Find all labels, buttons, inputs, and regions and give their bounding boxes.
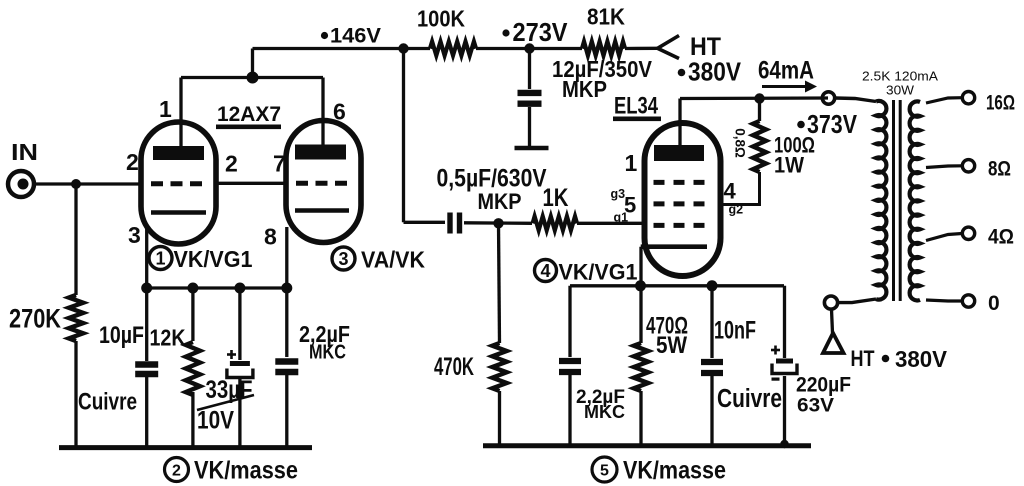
svg-text:2: 2	[225, 151, 238, 177]
grid g2 V2	[654, 201, 706, 206]
svg-text:1: 1	[155, 248, 165, 268]
svg-text:Cuivre: Cuivre	[717, 385, 782, 413]
wire 10uF top	[145, 288, 148, 361]
svg-text:VK/VG1: VK/VG1	[174, 246, 253, 272]
wire cathode rail right	[570, 284, 784, 287]
plus sign 33uF	[227, 353, 236, 356]
wire 1K to EL34 grid	[577, 222, 646, 225]
label circled 1 VK/VG1	[149, 247, 172, 270]
arrow 64mA	[762, 85, 809, 88]
svg-text:64mA: 64mA	[758, 57, 814, 85]
svg-text:3: 3	[338, 249, 348, 269]
node anode junction	[754, 93, 764, 103]
node 146V	[321, 32, 328, 39]
svg-text:4Ω: 4Ω	[988, 226, 1014, 249]
svg-text:3: 3	[128, 222, 141, 248]
HT feed arrow	[658, 36, 680, 59]
wire grid link V1a-V1b	[216, 182, 286, 185]
wire 2,2uF left bottom	[285, 375, 288, 448]
node HT 380V dot	[678, 69, 686, 77]
svg-text:HT: HT	[851, 346, 875, 371]
cathode V1a	[151, 210, 206, 215]
svg-text:220µF: 220µF	[796, 374, 851, 397]
label circled 2 VK/masse	[165, 458, 189, 482]
anode V1b	[295, 145, 346, 160]
capacitor 2,2uF MKC right	[559, 358, 581, 364]
cathode V2	[641, 244, 707, 249]
wire 146V rail	[253, 47, 431, 50]
svg-text:g1: g1	[614, 211, 629, 225]
wire tap 8R	[926, 166, 962, 168]
terminal 16R	[962, 92, 974, 104]
cathode V1b	[295, 208, 349, 213]
node rail dot 4	[281, 283, 292, 294]
svg-text:0: 0	[988, 292, 1000, 315]
wire 2,2uF right top	[568, 286, 571, 357]
svg-text:33µF: 33µF	[206, 376, 253, 404]
wire primary bottom	[838, 299, 876, 303]
terminal 4R	[962, 227, 974, 239]
wire anode link rail	[181, 76, 323, 79]
terminal 8R	[962, 160, 974, 172]
svg-text:8Ω: 8Ω	[988, 158, 1011, 181]
svg-text:146V: 146V	[330, 25, 381, 48]
wire input node down	[74, 184, 77, 295]
terminal bar 12uF	[515, 146, 549, 151]
grid V1b	[296, 181, 351, 186]
svg-text:1: 1	[625, 150, 638, 176]
svg-text:5W: 5W	[656, 332, 688, 359]
wire junction up to 146V rail	[251, 49, 254, 78]
wire 146V column down	[402, 49, 405, 223]
node junction 146V column	[398, 43, 408, 53]
wire terminal to HT triangle	[832, 309, 833, 333]
node cathode rail left junction	[635, 280, 646, 291]
svg-text:MKP: MKP	[478, 189, 522, 214]
wire grid junction down	[499, 223, 500, 343]
wire anode V1b riser	[321, 78, 324, 147]
svg-text:7: 7	[273, 151, 286, 177]
node input junction	[71, 179, 81, 189]
anode V1a	[153, 146, 204, 160]
svg-text:MKC: MKC	[309, 341, 346, 364]
node anode link junction	[247, 72, 259, 84]
svg-text:273V: 273V	[513, 17, 569, 47]
wire 273V node down	[528, 49, 531, 90]
label circled 3 VA/VK	[332, 247, 355, 270]
svg-text:IN: IN	[11, 139, 38, 165]
wire 220uF bottom	[783, 376, 786, 446]
capacitor 10uF Cuivre	[135, 361, 158, 367]
tube V1a 12AX7 envelope	[141, 122, 216, 244]
svg-text:5: 5	[600, 462, 609, 479]
wire 2,2uF right bottom	[568, 375, 571, 446]
resistor 12K	[186, 342, 200, 395]
svg-text:30W: 30W	[886, 83, 915, 98]
wire primary top	[835, 98, 876, 102]
wire 33uF top	[238, 288, 241, 360]
svg-text:1W: 1W	[774, 153, 804, 178]
wire tap 4R	[926, 234, 962, 241]
node rail dot 1	[141, 283, 152, 294]
wire 100R to screen pin 4	[720, 172, 760, 205]
capacitor 33uF/10V	[230, 361, 250, 366]
transformer core	[892, 100, 895, 301]
wire junction to 100R	[758, 99, 761, 122]
transformer secondary winding	[910, 101, 920, 300]
label circled 4 VK/VG1	[535, 260, 557, 282]
wire cathode V1b drop	[285, 227, 288, 288]
wire 100K to 273V node	[476, 47, 582, 50]
node grid junction	[493, 218, 503, 228]
HT supply triangle	[823, 333, 844, 353]
svg-text:81K: 81K	[587, 4, 625, 30]
resistor 81K	[582, 42, 625, 56]
wire 33uF bottom	[238, 378, 241, 449]
resistor 100R 1W	[753, 121, 766, 172]
capacitor 12uF/350V MKP	[518, 90, 542, 96]
node 220uF ground dot	[780, 440, 788, 448]
svg-text:16Ω: 16Ω	[986, 92, 1015, 115]
tube V1b 12AX7 envelope	[286, 121, 361, 243]
svg-text:380V: 380V	[688, 57, 742, 87]
svg-text:12K: 12K	[150, 325, 186, 351]
wire 12K top	[191, 288, 194, 341]
wire 81K to HT	[625, 47, 658, 51]
node HT bottom dot	[882, 355, 890, 363]
terminal primary bottom	[824, 296, 837, 309]
wire anode V2 riser	[678, 99, 681, 147]
svg-text:10µF: 10µF	[99, 322, 144, 349]
node 273V dot	[502, 29, 509, 36]
svg-text:10nF: 10nF	[714, 317, 756, 345]
tube V2 EL34 envelope	[645, 123, 721, 276]
grid V1a	[151, 181, 207, 186]
ground rail left	[59, 445, 312, 450]
svg-text:380V: 380V	[895, 346, 947, 372]
wire 470R to ground	[639, 391, 642, 446]
wire anode V1a riser	[179, 78, 182, 147]
svg-text:6: 6	[333, 99, 346, 125]
node rail dot 2	[187, 283, 198, 294]
resistor 1K	[533, 216, 577, 230]
wire IN to grid V1a	[34, 182, 141, 185]
svg-text:1: 1	[159, 96, 172, 122]
label EL34 underline	[613, 117, 661, 122]
capacitor 2,2uF MKC left	[275, 358, 298, 364]
node rail dot 3	[234, 283, 245, 294]
resistor 470R 5W	[634, 343, 648, 391]
svg-text:VK/VG1: VK/VG1	[559, 260, 638, 285]
resistor 270K	[69, 295, 83, 341]
ground rail right	[483, 443, 811, 448]
svg-text:MKP: MKP	[562, 76, 607, 102]
wire cathode V1a drop	[145, 229, 148, 288]
svg-text:VK/masse: VK/masse	[623, 457, 726, 485]
svg-text:470K: 470K	[434, 353, 474, 381]
grid g1 V2	[654, 223, 706, 228]
wire cathode rail left	[147, 286, 287, 289]
wire tap 16R	[926, 98, 962, 103]
wire anode rail to transformer	[680, 96, 828, 100]
node 273V junction	[524, 43, 534, 53]
svg-text:4: 4	[724, 179, 737, 204]
wire 220uF top	[783, 286, 786, 358]
plus sign 220uF	[771, 349, 780, 352]
capacitor 0,5uF/630V MKP	[447, 213, 452, 234]
svg-text:Cuivre: Cuivre	[78, 389, 137, 416]
svg-text:2.5K 120mA: 2.5K 120mA	[862, 69, 938, 84]
svg-text:EL34: EL34	[614, 93, 658, 120]
svg-text:1K: 1K	[543, 184, 569, 212]
wire 12uF down	[528, 107, 531, 147]
wire 12K bottom	[191, 392, 194, 448]
wire cathode V2 drop	[639, 247, 642, 343]
svg-text:VK/masse: VK/masse	[194, 457, 298, 485]
anode V2	[654, 145, 704, 161]
wire cap to junction	[464, 221, 532, 225]
transformer primary winding	[876, 101, 886, 300]
svg-text:4: 4	[540, 261, 550, 281]
svg-text:10V: 10V	[197, 407, 234, 435]
svg-text:8: 8	[264, 224, 277, 250]
svg-text:MKC: MKC	[584, 402, 625, 422]
node cathode rail 10nF junction	[707, 280, 718, 291]
wire 270K to ground	[74, 341, 77, 448]
wire 2,2uF left top	[285, 288, 288, 357]
svg-text:VA/VK: VA/VK	[361, 247, 425, 273]
label circled 5 VK/masse	[592, 457, 617, 482]
svg-text:g3: g3	[611, 187, 626, 201]
label 33uF slash	[197, 395, 254, 410]
resistor 100K	[430, 42, 476, 56]
svg-text:0,8Ω: 0,8Ω	[733, 128, 748, 158]
wire to coupling cap	[404, 221, 446, 224]
node 373V dot	[797, 121, 805, 129]
terminal primary top	[822, 92, 834, 104]
label 12AX7 underline	[216, 125, 281, 130]
capacitor 10nF Cuivre	[701, 359, 723, 365]
svg-text:100K: 100K	[417, 6, 465, 32]
resistor 470K	[492, 343, 506, 391]
svg-text:63V: 63V	[797, 396, 834, 417]
svg-text:2: 2	[126, 149, 139, 175]
input jack IN	[8, 171, 34, 197]
wire 10uF bottom	[145, 377, 148, 448]
svg-text:12AX7: 12AX7	[217, 103, 281, 126]
minus sign 220uF	[772, 378, 780, 381]
svg-text:2: 2	[172, 462, 181, 479]
wire 470K to ground	[498, 391, 501, 446]
wire 10nF bottom	[710, 376, 713, 446]
grid g3 V2	[654, 180, 706, 185]
svg-text:270K: 270K	[9, 304, 61, 334]
wire tap 0	[926, 300, 962, 301]
wire 10nF top	[710, 286, 713, 358]
terminal 0	[962, 295, 974, 307]
capacitor 220uF/63V	[776, 359, 793, 364]
